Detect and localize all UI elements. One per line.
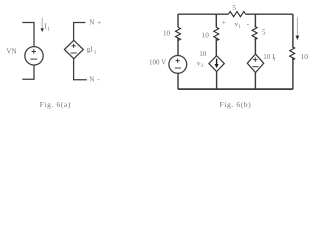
wire (215, 38, 217, 56)
svg-text:5: 5 (232, 3, 236, 12)
svg-text:5: 5 (262, 28, 266, 37)
svg-text:-: - (97, 75, 100, 84)
wire top terminal to N+ (74, 23, 86, 41)
svg-text:10: 10 (301, 52, 309, 61)
resistor 5 (branch 3) (252, 26, 257, 39)
svg-text:1: 1 (238, 24, 241, 30)
dependent current source 10 v3 (diamond with down arrow) (209, 56, 224, 72)
svg-text:N: N (89, 76, 94, 84)
voltage source 100 V (169, 56, 187, 74)
svg-text:+: + (222, 18, 226, 27)
voltage source VN (25, 47, 43, 65)
dependent source gI1 (diamond) (64, 40, 83, 58)
resistor 10 (left edge) (176, 27, 181, 40)
svg-text:1: 1 (94, 49, 97, 55)
svg-text:10: 10 (202, 31, 210, 39)
resistor 5 (top horizontal) (229, 12, 246, 17)
wire top rail right segment (245, 13, 293, 15)
wire branch3 bottom (254, 73, 256, 90)
wire right edge bottom (292, 57, 294, 89)
wire top rail left segment (178, 13, 229, 15)
wire bottom rail (178, 88, 293, 90)
svg-text:gI: gI (87, 45, 94, 54)
resistor 10 (right edge) (290, 47, 295, 60)
svg-text:1: 1 (273, 57, 276, 63)
wire right edge top (292, 14, 294, 47)
resistor 10 (branch 2) (214, 27, 219, 40)
wire (254, 37, 256, 54)
svg-text:N: N (89, 19, 94, 27)
dependent voltage source 10 I1 (diamond) (247, 54, 263, 72)
svg-text:3: 3 (201, 63, 204, 69)
current arrow (right branch) (296, 18, 298, 38)
svg-text:Fig. 6(b): Fig. 6(b) (220, 100, 252, 109)
svg-text:1: 1 (47, 26, 50, 32)
wire (177, 38, 179, 56)
svg-text:+: + (97, 18, 101, 27)
wire branch2 top (215, 14, 217, 27)
svg-text:VN: VN (6, 46, 17, 55)
wire branch3 top (254, 14, 256, 26)
wire (177, 73, 179, 89)
svg-text:10: 10 (163, 30, 171, 38)
svg-text:100 V: 100 V (149, 58, 166, 66)
wire bottom terminal to N- (74, 59, 87, 80)
current arrow I1 (41, 18, 43, 30)
svg-text:Fig. 6(a): Fig. 6(a) (40, 100, 71, 109)
wire left edge top (177, 14, 179, 27)
svg-text:-: - (247, 19, 250, 28)
wire branch2 bottom (216, 72, 218, 90)
wire top terminal of VN (22, 23, 34, 47)
wire bottom terminal of VN (22, 65, 34, 79)
svg-text:10: 10 (199, 50, 207, 58)
